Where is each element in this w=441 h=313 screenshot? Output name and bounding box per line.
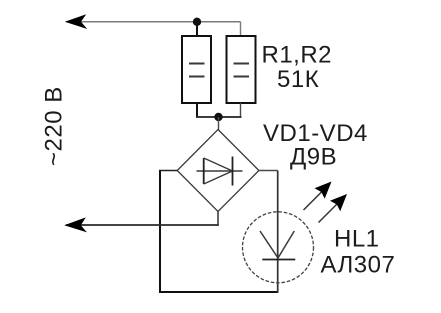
wire to bridge top [218, 117, 220, 130]
resistor R2 [227, 36, 256, 103]
svg-text:Д9В: Д9В [290, 144, 337, 171]
wire LED rail vertical [277, 171, 279, 294]
arrow mains top [65, 14, 87, 29]
wire lead R1 bottom [196, 103, 198, 117]
wire top horizontal to mains [66, 21, 241, 23]
wire lead R2 bottom [240, 103, 242, 117]
wire bridge right vertex [259, 170, 278, 172]
svg-text:51К: 51К [277, 66, 319, 93]
diode bridge VD1-VD4 [177, 130, 259, 212]
svg-text:R1,R2: R1,R2 [262, 42, 333, 69]
wire lead R1 top [196, 22, 198, 36]
LED HL1 [243, 212, 314, 283]
node junction below resistors [214, 113, 222, 121]
svg-text:АЛ307: АЛ307 [321, 252, 396, 279]
resistor R1 [182, 36, 211, 103]
node junction top [193, 18, 201, 26]
wire bottom rail [159, 291, 278, 293]
arrow mains bottom [64, 217, 87, 232]
svg-text:HL1: HL1 [334, 226, 380, 253]
wire bridge left vertex [159, 170, 177, 172]
wire lead R2 top [240, 22, 242, 36]
wire resistor bottoms join [196, 116, 242, 118]
wire mains bottom horizontal [66, 224, 219, 226]
arrow LED emission 2 [319, 194, 348, 223]
arrow LED emission 1 [304, 182, 332, 211]
wire bridge bottom vertex down [217, 212, 219, 226]
svg-text:~220 В: ~220 В [41, 86, 68, 166]
wire left rail vertical [159, 171, 161, 294]
